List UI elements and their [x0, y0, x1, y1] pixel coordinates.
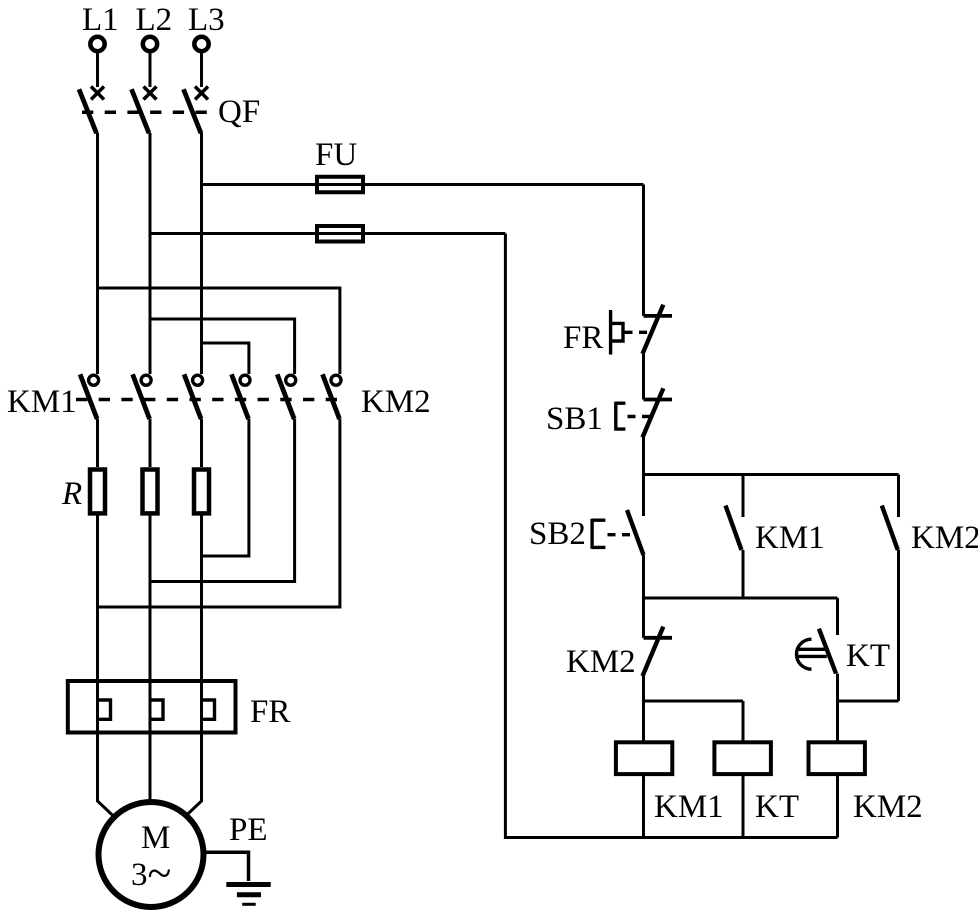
- contact KM1 auxiliary NO blade: [726, 506, 742, 551]
- contact KT delay semicircle: [797, 639, 812, 669]
- svg-text:KT: KT: [755, 789, 799, 825]
- wire bottom rail and return to fuse 2: [505, 234, 837, 838]
- relay FR actuator: [611, 310, 623, 355]
- wire junction KT KM2aux: [838, 700, 899, 703]
- ground PE bar 2: [237, 892, 261, 897]
- svg-text:SB1: SB1: [546, 401, 603, 437]
- svg-text:KM2: KM2: [361, 384, 431, 420]
- svg-text:SB2: SB2: [529, 516, 586, 552]
- ground PE bar 1: [226, 882, 270, 887]
- contactor KM2 pole 2 pivot circle: [286, 375, 296, 385]
- thermal relay FR heater element 1: [98, 700, 111, 719]
- wire KM2 pole 1 bypass to phase 3: [202, 419, 249, 556]
- wire KM1 pole 2 to resistor R2: [149, 419, 152, 467]
- svg-text:FU: FU: [315, 137, 357, 173]
- relay FR actuator dashed link: [625, 331, 652, 334]
- contactor KM1 pole 2 blade: [133, 374, 150, 419]
- wire KM1 coil to bottom rail: [642, 774, 645, 837]
- contactor KM1 pole 1 pivot circle: [89, 375, 99, 385]
- svg-text:QF: QF: [218, 94, 260, 130]
- wire fuse line 2 from phase 2 to control return rail: [150, 232, 505, 235]
- svg-text:R: R: [61, 476, 82, 512]
- button SB2 NO blade: [627, 510, 644, 555]
- resistor R2: [143, 470, 158, 514]
- motor M circle: [99, 802, 204, 907]
- breaker QF pole 2 contact cross: [144, 87, 157, 100]
- svg-text:L3: L3: [188, 2, 225, 38]
- coil KT: [714, 742, 771, 774]
- contact KM2 auxiliary NO blade: [882, 506, 898, 551]
- wire L1 terminal to QF: [96, 52, 99, 88]
- wire SB1 to node A: [642, 437, 645, 475]
- svg-text:KM1: KM1: [7, 384, 77, 420]
- node B horizontal rail: [644, 597, 838, 600]
- svg-text:FR: FR: [250, 694, 290, 730]
- button SB1 NC seat: [644, 398, 673, 402]
- button SB2 actuator dashed link: [608, 533, 632, 536]
- wire L3 terminal to QF: [200, 52, 203, 88]
- wire motor to PE ground: [204, 852, 249, 881]
- thermal relay FR box: [68, 681, 236, 733]
- svg-text:KT: KT: [846, 638, 890, 674]
- wire branch phase 2 to KM2 pole 2: [150, 319, 295, 374]
- wire KM2 coil to bottom rail: [836, 774, 839, 837]
- contact KT delay chords: [797, 649, 827, 656]
- breaker QF pole 2 blade: [132, 89, 150, 133]
- wire fuse line 1 from phase 3 to control rail: [202, 183, 644, 186]
- wire node B to KM2 NC contact: [642, 598, 645, 638]
- terminal circle L3: [194, 37, 208, 51]
- svg-text:KM1: KM1: [654, 789, 724, 825]
- node A horizontal rail: [644, 473, 899, 476]
- contact KM2 auxiliary NO upper wire: [897, 475, 900, 518]
- svg-text:KM2: KM2: [853, 789, 923, 825]
- breaker QF pole 3 contact cross: [195, 87, 208, 100]
- wire FR contact to SB1: [642, 352, 645, 400]
- wire FR to motor phase 3: [186, 735, 201, 816]
- coil KM1: [616, 742, 672, 774]
- thermal relay FR heater element 2: [150, 700, 163, 719]
- wire down to KT coil: [742, 701, 745, 742]
- wire control rail from fuse 1 down to FR contact: [642, 185, 645, 316]
- wire KT contact down: [836, 674, 839, 743]
- button SB1 actuator: [616, 402, 626, 431]
- wire branch phase 1 to KM2 pole 3: [98, 288, 340, 374]
- contactor linkage dashed line KM1 KM2: [76, 398, 346, 402]
- svg-text:FR: FR: [563, 320, 603, 356]
- wire node B to KT contact: [836, 598, 839, 635]
- breaker QF linkage dashed line: [82, 111, 207, 115]
- wire resistor R2 to FR heater 2: [149, 514, 152, 735]
- wire KT coil to bottom rail: [742, 774, 745, 837]
- wire node A to SB2: [642, 475, 645, 517]
- svg-text:KM1: KM1: [755, 520, 825, 556]
- contactor KM2 pole 3 pivot circle: [331, 375, 341, 385]
- wire FR to motor phase 2: [149, 735, 152, 802]
- wire junction KM1coil KTcoil: [644, 700, 744, 703]
- contactor KM1 pole 2 pivot circle: [141, 375, 151, 385]
- button SB1 NC blade: [643, 388, 664, 437]
- wire resistor R3 to FR heater 3: [200, 514, 203, 735]
- svg-text:KM2: KM2: [911, 520, 978, 556]
- wire FR to motor phase 1: [98, 735, 113, 816]
- contact KT delayed NO blade: [819, 629, 836, 674]
- terminal circle L1: [90, 37, 104, 51]
- relay contact FR NC blade: [643, 305, 664, 354]
- contactor KM1 pole 3 pivot circle: [193, 375, 203, 385]
- button SB1 actuator dashed link: [628, 415, 653, 418]
- contactor KM2 pole 2 blade: [277, 374, 294, 419]
- fuse FU element 2: [317, 226, 363, 242]
- breaker QF pole 3 blade: [184, 89, 202, 133]
- wire phase 3 QF to KM1 contact: [200, 133, 203, 374]
- svg-text:L2: L2: [136, 2, 173, 38]
- resistor R1: [90, 470, 105, 514]
- contactor KM2 pole 3 blade: [323, 374, 340, 419]
- svg-text:PE: PE: [229, 812, 268, 848]
- wire KM2 pole 2 bypass to phase 2: [150, 419, 295, 582]
- wire KM1 pole 1 to resistor R1: [96, 419, 99, 467]
- contactor KM1 pole 1 blade: [80, 374, 97, 419]
- wire resistor R1 to FR heater 1: [96, 514, 99, 735]
- svg-text:KM2: KM2: [566, 644, 636, 680]
- wire phase 2 QF to KM1 contact: [149, 133, 152, 374]
- ground PE bar 3: [242, 903, 256, 906]
- wire KM1 pole 3 to resistor R3: [200, 419, 203, 467]
- wire L2 terminal to QF: [149, 52, 152, 88]
- button SB2 actuator: [592, 519, 605, 549]
- contactor KM2 pole 1 pivot circle: [240, 375, 250, 385]
- resistor R3: [194, 470, 209, 514]
- wire branch phase 3 to KM2 pole 1: [202, 343, 249, 374]
- breaker QF pole 1 blade: [79, 89, 97, 133]
- wire KM2 NC to KM1 coil: [642, 676, 645, 742]
- wire KM1 auxiliary to lower node: [742, 550, 745, 598]
- svg-text:L1: L1: [82, 2, 119, 38]
- contactor KM2 pole 1 blade: [232, 374, 249, 419]
- wire SB2 to lower node: [642, 555, 645, 598]
- contact KM2 NC seat: [644, 636, 673, 640]
- contact KM1 auxiliary NO upper wire: [742, 475, 745, 518]
- terminal circle L2: [143, 37, 157, 51]
- wire KM2 pole 3 bypass to phase 1: [98, 419, 340, 607]
- contactor KM1 pole 3 blade: [184, 374, 201, 419]
- svg-text:3~: 3~: [131, 849, 171, 898]
- breaker QF pole 1 contact cross: [91, 87, 104, 100]
- thermal relay FR heater element 3: [202, 700, 215, 719]
- wire phase 1 QF to KM1 contact: [96, 133, 99, 374]
- fuse FU element 1: [317, 177, 363, 193]
- coil KM2: [809, 742, 865, 774]
- wire KM2 auxiliary down to KT junction: [897, 550, 900, 701]
- contact KM2 NC blade: [643, 627, 664, 677]
- relay contact FR NC seat: [644, 314, 673, 318]
